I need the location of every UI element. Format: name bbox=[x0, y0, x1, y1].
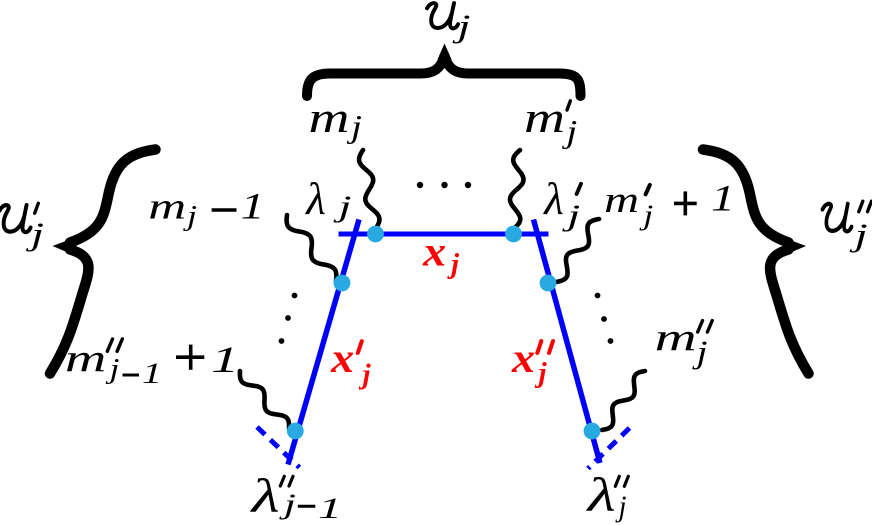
svg-text:1: 1 bbox=[318, 492, 342, 525]
svg-text:j: j bbox=[278, 488, 296, 520]
label lambda''_j bbox=[585, 469, 628, 523]
svg-text:j: j bbox=[561, 199, 580, 232]
squiggle m_j-1 to node bbox=[287, 215, 337, 281]
blue edge x''_j (right leg) bbox=[534, 220, 601, 464]
node bottom-left bbox=[287, 423, 304, 440]
label m''_j bbox=[655, 317, 713, 370]
svg-text:x: x bbox=[511, 336, 535, 382]
squiggle m''_j-1+1 to node bbox=[240, 371, 289, 429]
svg-text:1: 1 bbox=[711, 178, 735, 219]
squiggle m_j to node bbox=[359, 150, 379, 229]
svg-text:λ: λ bbox=[542, 174, 564, 224]
squiggle m''_j to node bbox=[602, 371, 645, 430]
label lambda'_j bbox=[542, 174, 581, 232]
node on x_j left bbox=[367, 226, 384, 243]
svg-text:j: j bbox=[447, 248, 460, 280]
center ellipsis dots bbox=[417, 182, 471, 188]
node on right leg bbox=[540, 275, 557, 292]
dashed blue line bottom-right bbox=[588, 428, 630, 469]
svg-text:j: j bbox=[638, 200, 653, 232]
node on left leg bbox=[334, 275, 351, 292]
svg-text:x: x bbox=[422, 230, 446, 276]
label lambda''_j-1 bbox=[249, 469, 342, 525]
label U''_j bbox=[822, 201, 871, 253]
top overbrace for U_j bbox=[307, 57, 581, 96]
right big brace of U''_j bbox=[703, 150, 809, 374]
svg-text:1: 1 bbox=[241, 187, 265, 228]
svg-text:j: j bbox=[332, 190, 351, 223]
label m''_j-1 plus 1 bbox=[65, 337, 239, 390]
svg-text:m: m bbox=[524, 95, 565, 142]
blue edge x_j (horizontal) bbox=[339, 232, 549, 237]
label m'_j bbox=[524, 95, 577, 149]
right vertical dots bbox=[595, 293, 614, 344]
svg-text:λ: λ bbox=[249, 469, 280, 522]
right brace cusp bbox=[784, 238, 807, 256]
label U'_j bbox=[0, 203, 44, 251]
svg-text:m: m bbox=[655, 317, 697, 360]
svg-text:m: m bbox=[309, 95, 350, 142]
svg-text:m: m bbox=[148, 187, 186, 228]
squiggle m'_j+1 to node bbox=[556, 219, 599, 282]
left big brace of U'_j bbox=[50, 150, 156, 374]
svg-text:m: m bbox=[65, 337, 107, 380]
label m_j bbox=[309, 95, 363, 144]
svg-text:m: m bbox=[604, 180, 639, 221]
svg-text:j: j bbox=[359, 358, 372, 390]
svg-text:1: 1 bbox=[211, 340, 239, 381]
left brace cusp bbox=[53, 238, 76, 256]
blue edge x'_j (left leg) bbox=[288, 220, 359, 465]
svg-text:λ: λ bbox=[304, 174, 326, 224]
svg-text:λ: λ bbox=[585, 469, 616, 522]
dashed blue line bottom-left bbox=[257, 427, 300, 468]
node on x_j right bbox=[505, 226, 522, 243]
node bottom-right bbox=[584, 423, 601, 440]
red label x_j bbox=[422, 230, 460, 280]
svg-text:j: j bbox=[535, 357, 548, 389]
svg-text:j: j bbox=[849, 217, 868, 253]
top brace tip wedge bbox=[437, 44, 452, 61]
svg-text:1: 1 bbox=[142, 357, 162, 390]
red label x'_j bbox=[330, 336, 371, 390]
label lambda_j bbox=[304, 174, 351, 224]
label m'_j plus 1 bbox=[604, 178, 735, 231]
left vertical dots bbox=[279, 293, 298, 344]
svg-text:j: j bbox=[615, 490, 627, 523]
svg-text:j: j bbox=[452, 7, 471, 43]
svg-text:x: x bbox=[330, 336, 354, 382]
squiggle m'_j to node bbox=[510, 150, 524, 229]
label m_j minus 1 bbox=[148, 187, 264, 232]
svg-text:j: j bbox=[105, 353, 120, 385]
red label x''_j bbox=[511, 336, 553, 389]
label U_j bbox=[427, 3, 471, 43]
